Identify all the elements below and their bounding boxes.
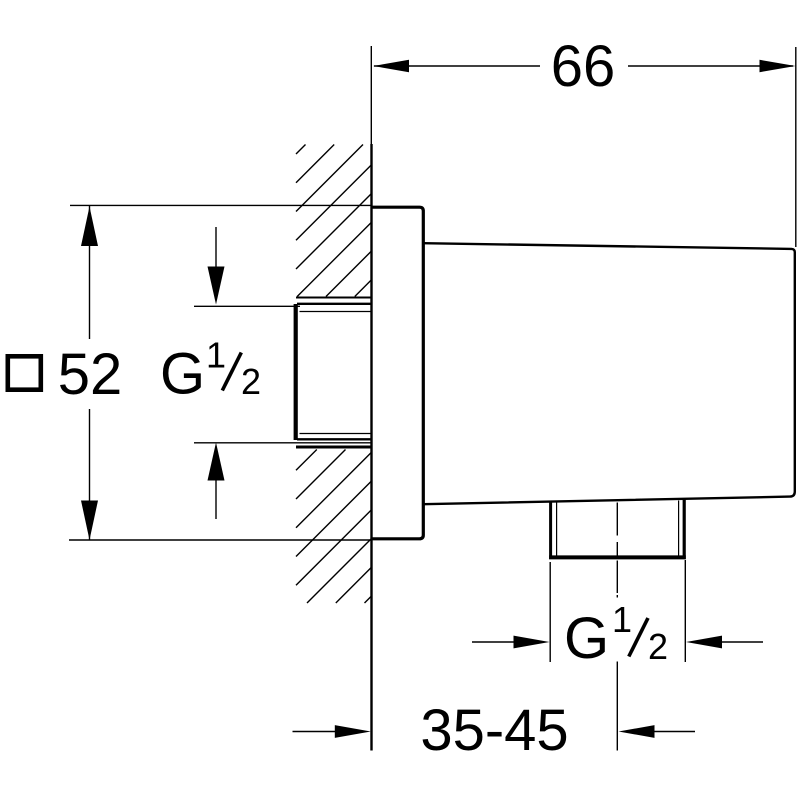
dimension 52 arrowhead bottom [81, 501, 98, 541]
inlet pipe end cap [294, 304, 298, 440]
bottom G 1/2 fraction slash [629, 618, 648, 657]
dimension 66 line left segment [374, 65, 540, 67]
inner dimension arrow top shaft [215, 227, 217, 270]
square section symbol [8, 356, 41, 389]
svg-text:G: G [564, 606, 609, 671]
dimension 52 line [89, 206, 91, 540]
outlet centerline [616, 503, 618, 751]
white mask behind 52 text [58, 339, 122, 409]
inlet pipe thread bottom inner line [300, 433, 372, 435]
inner G 1/2 dimension extension line bottom [194, 442, 372, 444]
dimension 35-45 arrow left shaft [293, 731, 339, 733]
inner dimension arrowhead bottom [208, 443, 225, 481]
inlet pipe thread bottom outer line [297, 438, 372, 440]
svg-text:52: 52 [58, 342, 123, 407]
dimension 66 arrowhead left [373, 60, 409, 72]
outlet right inner thread line [678, 501, 680, 557]
inlet pipe thread top inner line [300, 311, 372, 313]
outlet left inner thread line [556, 502, 558, 556]
bottom G 1/2 arrow left shaft [472, 641, 516, 643]
svg-text:1: 1 [612, 599, 632, 640]
svg-text:1: 1 [206, 335, 226, 376]
dimension 66 extension line right [795, 47, 797, 247]
bottom G 1/2 arrowhead left [514, 636, 550, 649]
dimension 35-45 arrowhead left [335, 725, 371, 738]
inner dimension arrow bottom shaft [215, 478, 217, 519]
wall hole bottom edge [296, 446, 372, 449]
dimension 66 line right segment [628, 65, 793, 67]
dimension 52 extension line bottom [69, 539, 372, 541]
dimension 52 arrowhead top [81, 207, 98, 247]
left G 1/2 fraction slash [222, 353, 241, 391]
dimension 35-45 arrowhead right [619, 725, 655, 738]
svg-text:66: 66 [551, 34, 616, 99]
bottom G 1/2 arrowhead right [686, 636, 722, 649]
bottom G 1/2 dimension extension line right [684, 560, 686, 662]
dimension 66 arrowhead right [760, 60, 796, 72]
bottom G 1/2 dimension extension line left [549, 562, 551, 662]
wall hatching upper band [296, 145, 372, 297]
wall hole top edge [296, 297, 372, 299]
svg-text:35-45: 35-45 [420, 698, 568, 763]
wall face line [370, 144, 372, 751]
outlet left edge [549, 502, 552, 560]
flange escutcheon [372, 207, 424, 539]
outlet right edge [683, 500, 686, 560]
wall hatching lower band [296, 450, 372, 604]
svg-text:2: 2 [648, 626, 668, 667]
inner G 1/2 dimension extension line top [194, 305, 300, 307]
outlet bottom edge [549, 555, 686, 559]
bottom G 1/2 arrow right shaft [720, 641, 763, 643]
dimension 52 extension line top [70, 204, 372, 206]
dimension 66 extension line left [370, 46, 372, 144]
inlet pipe thread top outer line [297, 303, 372, 305]
svg-text:2: 2 [241, 361, 261, 402]
body outline [423, 243, 795, 504]
inner dimension arrowhead top [208, 267, 225, 305]
dimension 35-45 arrow right shaft [652, 731, 695, 733]
svg-text:G: G [160, 342, 205, 407]
